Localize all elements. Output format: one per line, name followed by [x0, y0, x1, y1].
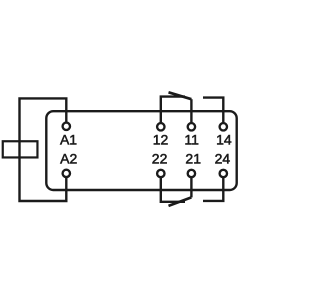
contact arm 21-22 (NC closed)	[169, 197, 192, 206]
svg-text:12: 12	[153, 132, 169, 148]
svg-text:14: 14	[216, 132, 232, 148]
svg-text:24: 24	[215, 151, 231, 167]
contact arm 11-12 (NC closed)	[169, 92, 192, 99]
coil K1	[3, 141, 38, 157]
terminal 11	[188, 123, 195, 130]
svg-text:21: 21	[185, 151, 201, 167]
svg-text:11: 11	[184, 132, 199, 148]
svg-text:22: 22	[152, 151, 168, 167]
terminal A1	[63, 123, 70, 130]
wire 11	[190, 99, 192, 123]
terminal 21	[188, 170, 195, 177]
terminal 22	[157, 170, 164, 177]
relay body	[46, 111, 236, 190]
terminal 12	[157, 123, 164, 130]
svg-text:A1: A1	[60, 132, 77, 148]
wire coil loop A1	[20, 98, 67, 201]
wire 21	[190, 177, 192, 197]
wire 24 with NO fixed contact bar	[203, 177, 223, 201]
wire 14 with NO fixed contact bar	[203, 98, 223, 123]
svg-text:A2: A2	[60, 151, 77, 167]
terminal 24	[220, 170, 227, 177]
terminal 14	[220, 123, 227, 130]
terminal A2	[63, 170, 70, 177]
wire 22 with NC fixed contact bar	[161, 177, 185, 202]
wire 12 with NC fixed contact bar	[161, 97, 185, 123]
